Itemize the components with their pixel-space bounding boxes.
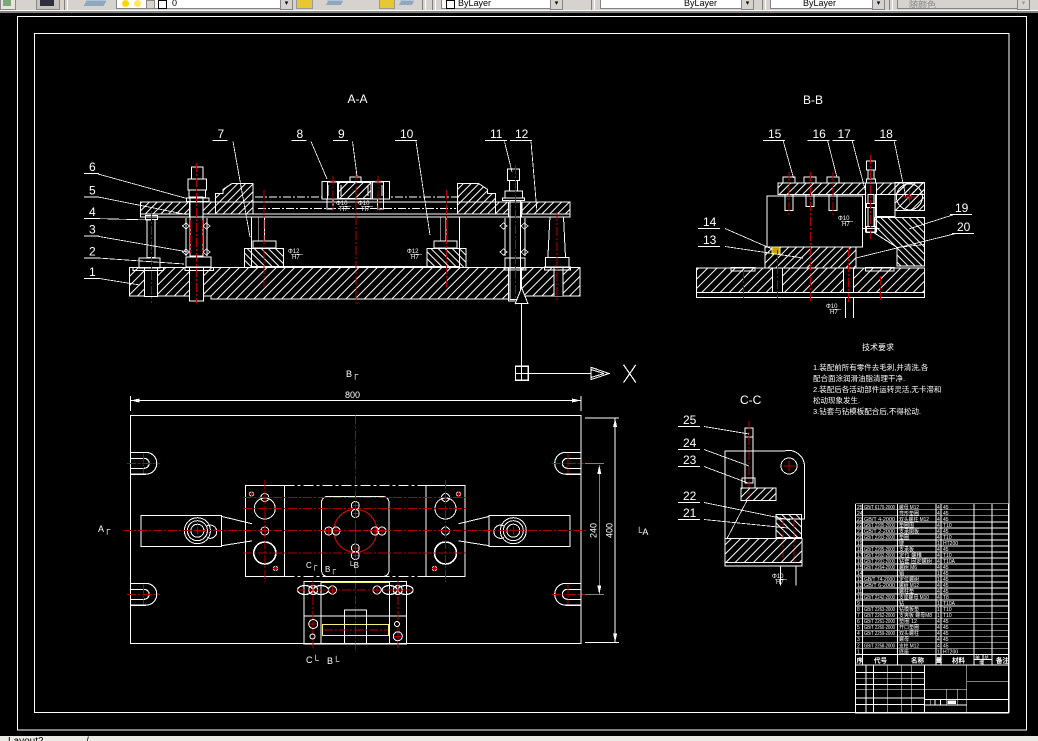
dimension 400 [585, 417, 619, 419]
svg-text:1.装配前所有零件去毛刺,并清洗,各: 1.装配前所有零件去毛刺,并清洗,各 [813, 362, 929, 372]
stud 18 (B-B) [867, 161, 876, 170]
svg-text:45: 45 [943, 517, 949, 523]
slider (C-C) [776, 515, 802, 538]
punch block 9 (A-A) [322, 182, 390, 200]
svg-text:8: 8 [857, 607, 860, 613]
support column (right, A-A) [548, 217, 566, 258]
svg-text:16: 16 [813, 127, 827, 141]
svg-text:6: 6 [89, 160, 96, 174]
bushing block (C-C) [741, 488, 776, 501]
svg-text:45: 45 [943, 637, 949, 643]
svg-text:弯形垫圈: 弯形垫圈 [899, 510, 919, 517]
svg-text:钻模板垫: 钻模板垫 [899, 606, 919, 613]
svg-text:3.钻套与钻模板配合后,不得松动.: 3.钻套与钻模板配合后,不得松动. [813, 406, 921, 416]
svg-text:7: 7 [218, 127, 225, 141]
svg-text:H7: H7 [411, 255, 419, 261]
phantom lines between blocks (plan) [285, 485, 427, 487]
svg-text:T10: T10 [943, 607, 952, 613]
svg-text:钻套 固定螺树: 钻套 固定螺树 [899, 558, 932, 565]
svg-text:量: 量 [936, 656, 942, 664]
svg-text:锼: 锼 [899, 540, 904, 547]
svg-text:支柱 M12: 支柱 M12 [899, 642, 919, 649]
svg-text:配合面涂润滑油脂清理干净.: 配合面涂润滑油脂清理干净. [813, 373, 905, 383]
locator block (left) [246, 486, 285, 577]
svg-text:螺母 M12: 螺母 M12 [899, 504, 919, 511]
stud 25 (C-C) [745, 428, 753, 483]
svg-text:4: 4 [89, 205, 96, 219]
support block (left, A-A) [253, 241, 276, 248]
nut 23 (C-C) [742, 478, 755, 488]
locator block (right) [426, 486, 465, 577]
svg-text:23: 23 [857, 517, 863, 523]
svg-text:H7: H7 [830, 310, 838, 316]
svg-text:开口垫圈: 开口垫圈 [899, 624, 919, 631]
svg-text:19: 19 [955, 201, 969, 215]
svg-text:20: 20 [957, 220, 971, 234]
svg-text:B┌: B┌ [325, 565, 336, 575]
title block [856, 665, 1009, 713]
svg-text:垫圈: 垫圈 [899, 534, 909, 541]
svg-text:└B: └B [348, 560, 359, 570]
svg-text:H7: H7 [842, 222, 850, 228]
svg-text:11: 11 [490, 127, 503, 141]
svg-text:12: 12 [515, 127, 529, 141]
svg-text:支爽板 螺母M8: 支爽板 螺母M8 [899, 612, 932, 619]
svg-text:B┌: B┌ [346, 369, 359, 380]
section arrow below base [515, 288, 528, 304]
clamp arm (right) [489, 516, 570, 547]
svg-text:材料: 材料 [951, 655, 966, 664]
svg-text:18: 18 [857, 547, 863, 553]
svg-text:9: 9 [338, 127, 345, 141]
svg-text:H7: H7 [340, 207, 348, 213]
svg-text:8: 8 [297, 127, 304, 141]
svg-text:24: 24 [683, 436, 697, 450]
svg-text:400: 400 [605, 523, 615, 538]
svg-text:└A: └A [636, 526, 648, 537]
support block (right, A-A) [434, 241, 457, 248]
svg-text:备注: 备注 [995, 655, 1010, 664]
svg-text:支座螺母 M10: 支座螺母 M10 [899, 594, 929, 601]
die cavity opening [252, 217, 460, 267]
liner plate (A-A) [140, 214, 570, 217]
through holes in base (A-A) [145, 268, 158, 297]
plan view outline [131, 416, 582, 644]
BOM table [856, 503, 1009, 505]
stud 11/12 (A-A) [507, 169, 519, 181]
svg-text:45: 45 [943, 577, 949, 583]
plan centrelines [123, 530, 588, 532]
svg-text:H7: H7 [362, 207, 370, 213]
body (C-C) [725, 450, 805, 538]
mounting slot [131, 583, 157, 605]
svg-text:B-B: B-B [803, 93, 823, 107]
svg-text:C└: C└ [306, 654, 319, 665]
svg-text:22: 22 [683, 489, 697, 503]
svg-text:序: 序 [856, 655, 864, 664]
svg-text:17: 17 [838, 127, 852, 141]
bolt 4 with nut 3 (left, A-A) [146, 215, 158, 219]
svg-text:GB/T 2264-2000: GB/T 2264-2000 [864, 565, 895, 571]
guide post (right, A-A) [440, 217, 446, 241]
clamp bracket 7 (A-A) [215, 184, 253, 214]
svg-text:螺柱垫: 螺柱垫 [899, 588, 914, 595]
wedge 19/20 (B-B) [875, 217, 924, 266]
through holes in base (B-B) [773, 268, 783, 293]
svg-text:GB/T 6-2000: GB/T 6-2000 [864, 583, 895, 589]
svg-text:GB/T 2205-2000: GB/T 2205-2000 [864, 547, 895, 553]
svg-text:4: 4 [937, 637, 940, 643]
mounting slot [131, 452, 157, 474]
mounting slot [555, 583, 581, 605]
svg-text:GB/T 2259-2000: GB/T 2259-2000 [864, 631, 895, 637]
svg-text:松动现象发生.: 松动现象发生. [813, 395, 860, 405]
svg-text:支承板: 支承板 [899, 546, 914, 553]
svg-text:GB/T 2203-2000: GB/T 2203-2000 [864, 535, 895, 541]
svg-text:螺母: 螺母 [899, 636, 909, 643]
svg-text:GB/T 74-2000: GB/T 74-2000 [864, 577, 895, 583]
svg-text:垫圈 12: 垫圈 12 [899, 618, 917, 625]
svg-text:1: 1 [937, 607, 940, 613]
svg-text:总: 总 [984, 654, 989, 661]
clamp arm (left) [141, 516, 222, 547]
vise body (B-B) [767, 196, 863, 247]
svg-text:代号: 代号 [873, 655, 888, 664]
svg-text:3: 3 [857, 637, 860, 643]
svg-text:支承閔板: 支承閔板 [899, 528, 919, 535]
svg-text:螺树 M6: 螺树 M6 [899, 564, 917, 571]
mounting slot [555, 452, 581, 474]
svg-text:45: 45 [943, 547, 949, 553]
svg-text:名称: 名称 [911, 655, 925, 664]
svg-text:15: 15 [768, 127, 782, 141]
svg-text:2: 2 [89, 244, 96, 258]
svg-text:13: 13 [857, 577, 863, 583]
dimension 800 [130, 396, 132, 411]
svg-text:钻: 钻 [899, 600, 904, 607]
top plate (B-B) [778, 183, 925, 195]
stud 6 with washer 5 (A-A) [192, 167, 204, 179]
svg-text:13: 13 [703, 233, 717, 247]
svg-text:GB/T 2242-2000: GB/T 2242-2000 [864, 595, 895, 601]
bolt 15 (B-B) [783, 177, 795, 183]
svg-text:A-A: A-A [348, 92, 368, 106]
svg-text:2.装配后各活动部件运转灵活,无卡滞和: 2.装配后各活动部件运转灵活,无卡滞和 [813, 384, 941, 394]
svg-text:双头螺柱: 双头螺柱 [899, 630, 919, 637]
base plate (B-B) [697, 268, 925, 293]
svg-text:5: 5 [89, 183, 96, 197]
centre line (A-A) [355, 171, 357, 305]
clamp bracket 10 (A-A) [458, 184, 496, 214]
plate through holes (A-A) [190, 202, 203, 217]
BOM header row [856, 654, 1009, 665]
svg-text:GB/T 2258-2000: GB/T 2258-2000 [864, 643, 895, 649]
svg-text:销: 销 [899, 570, 904, 577]
svg-text:25: 25 [683, 413, 697, 427]
svg-text:4: 4 [937, 517, 940, 523]
svg-text:B└: B└ [327, 655, 340, 666]
svg-text:800: 800 [345, 390, 360, 400]
svg-text:240: 240 [589, 523, 599, 538]
svg-text:1: 1 [89, 265, 96, 279]
svg-text:定位螺树: 定位螺树 [899, 576, 919, 583]
svg-text:双头螺柱 M12: 双头螺柱 M12 [899, 516, 929, 523]
UCS icon [516, 366, 529, 380]
svg-text:14: 14 [703, 215, 717, 229]
svg-text:C┌: C┌ [306, 561, 318, 571]
bottom bracket (plan) [304, 582, 407, 645]
guide post (left, A-A) [259, 217, 265, 241]
svg-text:23: 23 [683, 453, 697, 467]
centre lines (B-B) [810, 172, 812, 302]
svg-text:螺树 M12: 螺树 M12 [899, 582, 919, 589]
wing nut (right) [382, 586, 397, 595]
base plate 1 (A-A) [130, 268, 581, 299]
dimension 240 [585, 462, 604, 464]
svg-text:21: 21 [683, 506, 697, 520]
svg-text:18: 18 [880, 127, 894, 141]
svg-text:C-C: C-C [740, 393, 762, 407]
base (C-C) [725, 539, 802, 563]
right block with bore (B-B) [895, 182, 925, 210]
svg-text:A┌: A┌ [98, 524, 111, 535]
svg-text:1: 1 [937, 577, 940, 583]
die plate (centre) [322, 497, 390, 577]
middle screw (B-B) [804, 177, 816, 183]
svg-text:技术要求: 技术要求 [862, 342, 894, 352]
highlighted pin 13 (yellow) [772, 247, 780, 254]
svg-text:3: 3 [89, 223, 96, 237]
svg-text:定位 螺椎: 定位 螺椎 [899, 552, 922, 559]
svg-text:10: 10 [400, 127, 414, 141]
svg-text:垫圈围: 垫圈围 [899, 522, 914, 529]
bolt 16 (B-B) [827, 177, 839, 183]
wing nut (left) [298, 586, 313, 595]
svg-text:H7: H7 [292, 255, 300, 261]
svg-text:GB/T 6170-2000: GB/T 6170-2000 [864, 505, 895, 511]
svg-text:GB/T 4-2000: GB/T 4-2000 [864, 517, 895, 523]
top plate (A-A) [140, 202, 570, 214]
svg-text:GB/T 2263-2000: GB/T 2263-2000 [864, 607, 895, 613]
middle plate (B-B) [765, 247, 856, 268]
svg-text:4: 4 [937, 547, 940, 553]
